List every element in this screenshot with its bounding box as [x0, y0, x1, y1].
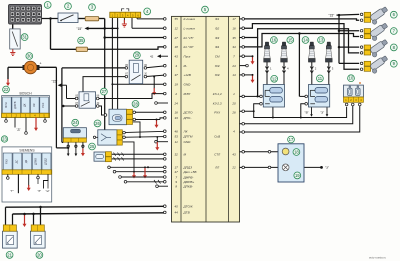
svg-text:"15": "15" [77, 27, 83, 31]
svg-text:+12В: +12В [184, 73, 191, 77]
svg-text:ДТОЖ: ДТОЖ [183, 204, 193, 208]
svg-text:27: 27 [102, 89, 107, 94]
svg-text:27: 27 [174, 36, 179, 40]
svg-text:14: 14 [303, 37, 308, 42]
svg-text:"м": "м" [46, 189, 50, 193]
svg-text:Ф4: Ф4 [215, 45, 219, 49]
svg-text:43: 43 [175, 55, 179, 59]
svg-text:20: 20 [231, 101, 236, 105]
svg-text:ДСПО: ДСПО [183, 111, 194, 115]
svg-text:12: 12 [175, 27, 179, 31]
svg-text:10: 10 [349, 76, 354, 81]
svg-text:"15": "15" [329, 13, 335, 17]
svg-text:ДМРВ-: ДМРВ- [183, 175, 194, 179]
svg-text:Ф1: Ф1 [215, 17, 219, 21]
svg-text:Дат.+5В: Дат.+5В [183, 170, 197, 174]
svg-text:ДМРВ+: ДМРВ+ [183, 180, 195, 184]
svg-text:45: 45 [175, 204, 179, 208]
svg-text:13: 13 [319, 37, 324, 42]
svg-text:16: 16 [232, 27, 236, 31]
svg-text:11: 11 [175, 140, 178, 144]
svg-text:22: 22 [4, 87, 9, 92]
svg-text:ДК: ДК [23, 103, 27, 107]
svg-text:ОК: ОК [32, 103, 36, 107]
svg-text:35: 35 [79, 38, 84, 43]
svg-text:ДПКВ-: ДПКВ- [183, 185, 193, 189]
svg-text:18: 18 [294, 149, 299, 154]
svg-text:22: 22 [231, 166, 236, 170]
svg-text:ДМРВ: ДМРВ [13, 101, 17, 109]
svg-text:МЗН: МЗН [184, 92, 191, 96]
svg-text:29: 29 [135, 53, 140, 58]
svg-text:47: 47 [175, 170, 179, 174]
svg-text:26: 26 [95, 121, 100, 126]
svg-text:21: 21 [7, 252, 12, 257]
svg-text:28: 28 [133, 101, 138, 106]
svg-text:24: 24 [174, 101, 179, 105]
svg-text:Кл."15": Кл."15" [184, 36, 195, 40]
svg-text:11: 11 [318, 76, 323, 81]
svg-text:42: 42 [150, 55, 154, 59]
svg-text:55: 55 [175, 17, 179, 21]
svg-text:ДТВ: ДТВ [183, 211, 190, 215]
svg-text:Ф2: Ф2 [215, 27, 219, 31]
svg-text:РХХ: РХХ [214, 111, 221, 115]
svg-text:"Д": "Д" [17, 128, 21, 132]
svg-text:25: 25 [90, 144, 95, 149]
svg-text:17: 17 [289, 137, 294, 142]
svg-text:16: 16 [175, 111, 179, 115]
svg-text:ОЖ: ОЖ [215, 64, 220, 68]
svg-text:М-: М- [184, 64, 188, 68]
svg-text:23: 23 [2, 136, 7, 141]
svg-text:SIEMENS: SIEMENS [19, 149, 35, 153]
svg-text:РХХ: РХХ [5, 159, 9, 164]
svg-text:14: 14 [232, 73, 236, 77]
svg-text:15: 15 [288, 37, 293, 42]
svg-text:L-линия: L-линия [184, 27, 196, 31]
svg-text:+: + [40, 62, 42, 66]
svg-text:19: 19 [295, 173, 300, 178]
svg-text:46: 46 [175, 129, 179, 133]
svg-text:Кл."30": Кл."30" [184, 45, 195, 49]
svg-text:32: 32 [175, 152, 179, 156]
svg-text:"В": "В" [305, 110, 309, 114]
svg-text:24: 24 [231, 64, 236, 68]
svg-text:ДС: ДС [14, 160, 18, 164]
svg-text:ДПДЗ: ДПДЗ [43, 158, 47, 165]
svg-text:34: 34 [232, 45, 236, 49]
svg-text:СМ: СМ [215, 55, 220, 59]
svg-text:КЗ-1,4: КЗ-1,4 [213, 92, 222, 96]
svg-text:"15": "15" [52, 79, 58, 83]
svg-text:Пуск: Пуск [184, 55, 191, 59]
svg-text:МЗН: МЗН [4, 102, 8, 108]
svg-text:СТЛ: СТЛ [214, 152, 221, 156]
svg-text:37: 37 [175, 73, 179, 77]
svg-text:РХХ: РХХ [41, 102, 45, 107]
svg-text:ДПКВ: ДПКВ [34, 158, 38, 165]
svg-text:35: 35 [232, 36, 236, 40]
svg-text:"З": "З" [320, 110, 324, 114]
svg-text:М: М [184, 152, 187, 156]
svg-text:20: 20 [37, 252, 42, 257]
svg-text:GND: GND [184, 140, 192, 144]
svg-text:КЗ-2,3: КЗ-2,3 [213, 101, 222, 105]
svg-text:53: 53 [175, 135, 179, 139]
svg-text:19: 19 [175, 83, 179, 87]
svg-text:17: 17 [175, 166, 179, 170]
svg-text:"б": "б" [38, 189, 42, 193]
svg-text:17: 17 [232, 17, 236, 21]
svg-text:26: 26 [231, 111, 236, 115]
svg-text:ДПДЗ: ДПДЗ [183, 166, 193, 170]
svg-text:44: 44 [175, 211, 179, 215]
svg-text:GND: GND [184, 83, 192, 87]
svg-text:ОЖ: ОЖ [215, 73, 220, 77]
svg-text:"З": "З" [325, 166, 329, 170]
svg-text:ДНО-: ДНО- [183, 116, 192, 120]
svg-text:33: 33 [175, 116, 179, 120]
svg-text:ЛК: ЛК [183, 129, 188, 133]
svg-text:31: 31 [22, 35, 27, 40]
svg-text:К-линия: К-линия [184, 17, 196, 21]
svg-text:СиВ: СиВ [214, 135, 220, 139]
svg-text:24: 24 [73, 120, 78, 125]
svg-text:12: 12 [272, 76, 277, 81]
svg-text:BOSCH: BOSCH [19, 92, 32, 96]
svg-text:18: 18 [175, 45, 179, 49]
svg-text:30: 30 [27, 53, 32, 58]
svg-text:Ф3: Ф3 [215, 36, 219, 40]
svg-text:"Г": "Г" [10, 189, 14, 193]
svg-text:16: 16 [272, 37, 277, 42]
svg-text:2: 2 [174, 92, 177, 96]
svg-text:43: 43 [232, 152, 236, 156]
svg-text:avto-russia.ru: avto-russia.ru [369, 256, 386, 260]
svg-text:ДПТМ: ДПТМ [183, 135, 193, 139]
svg-text:ДК: ДК [24, 159, 28, 163]
